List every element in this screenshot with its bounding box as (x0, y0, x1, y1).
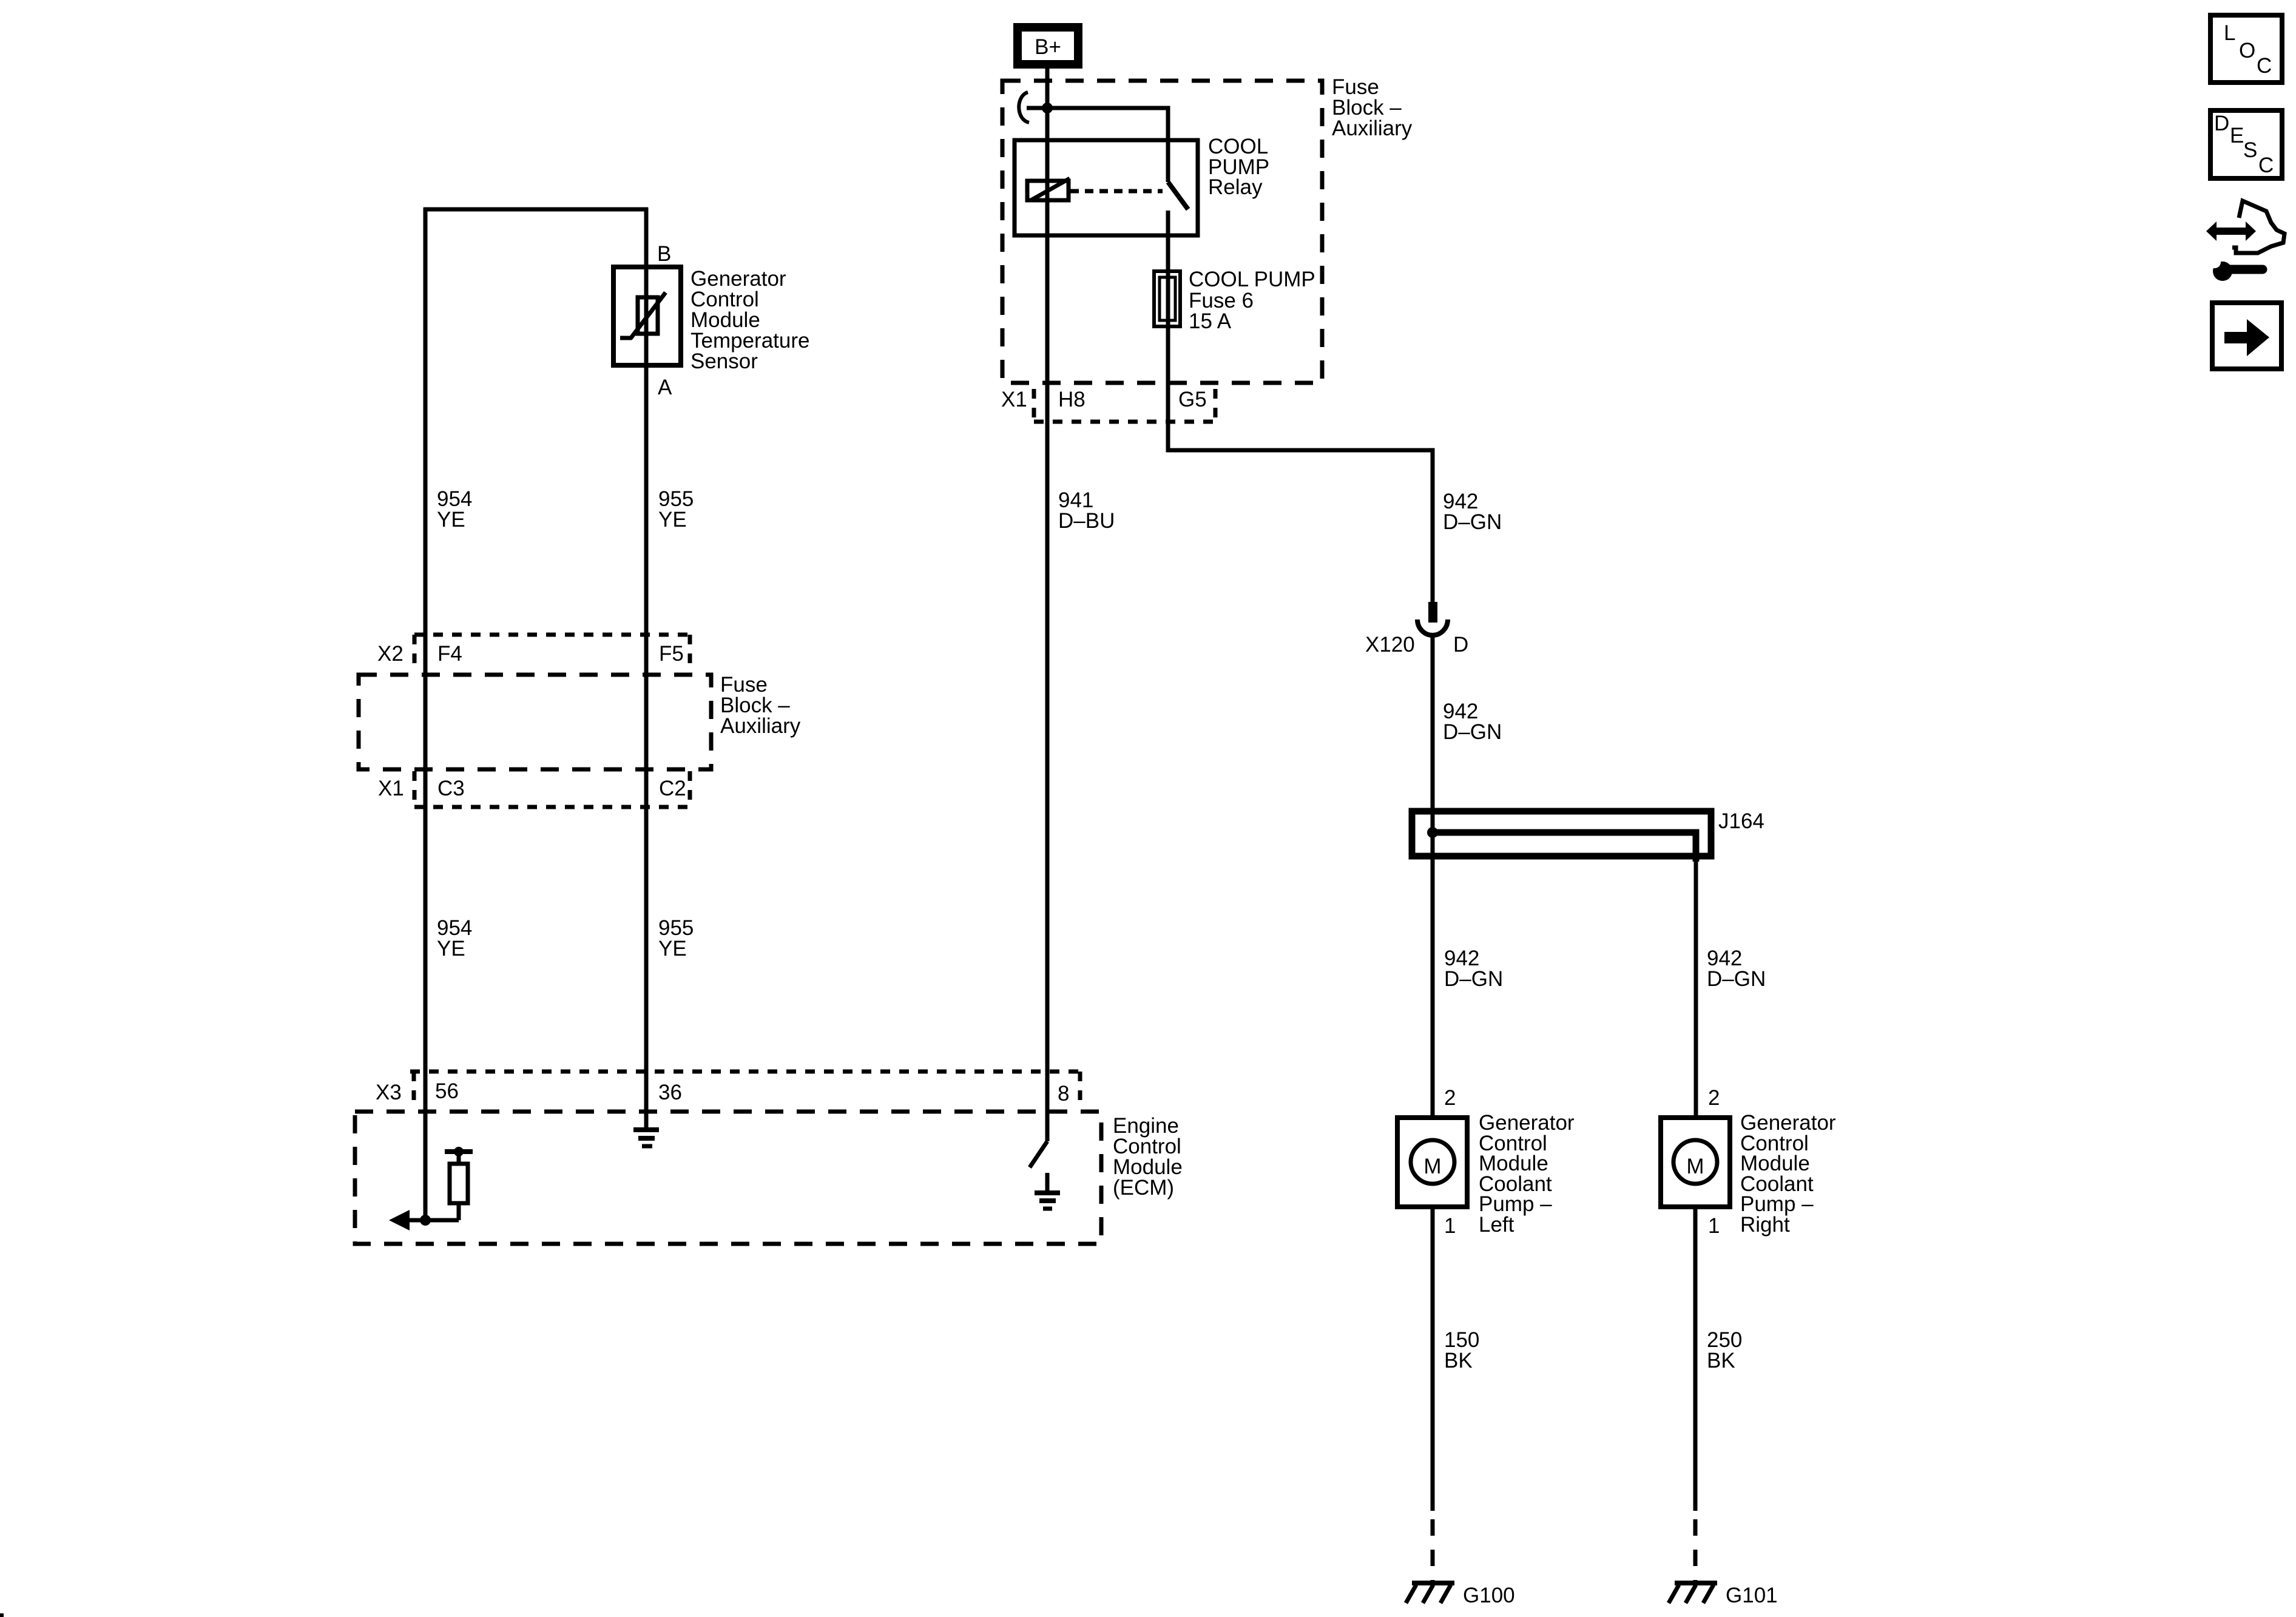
svg-text:YE: YE (437, 508, 465, 532)
svg-text:O: O (2239, 39, 2255, 62)
svg-text:D–GN: D–GN (1444, 967, 1503, 991)
wire label 250 BK (1707, 1328, 1742, 1372)
svg-text:Right: Right (1740, 1213, 1790, 1237)
svg-text:36: 36 (658, 1081, 682, 1104)
fuse block auxiliary (top) label (1332, 75, 1413, 140)
splice pack J164 (1412, 811, 1711, 862)
wire label 942 D-GN (above X120) (1443, 490, 1502, 534)
wire label 942 D-GN (right motor) (1707, 947, 1766, 991)
generator control module coolant pump left label (1479, 1111, 1575, 1237)
svg-text:56: 56 (435, 1079, 459, 1103)
DESC icon box (2210, 110, 2282, 178)
svg-text:YE: YE (658, 937, 687, 960)
connector X120 symbol (male pin into female cup) (1417, 602, 1448, 635)
ground G100 (chassis) (1406, 1583, 1454, 1603)
cool pump fuse label (1189, 268, 1315, 333)
svg-text:2: 2 (1444, 1086, 1456, 1110)
svg-text:C: C (2257, 54, 2272, 78)
wire 150 BK (left motor down) (1431, 1207, 1435, 1511)
svg-text:L: L (2224, 21, 2235, 45)
cool pump relay label (1208, 135, 1269, 199)
svg-text:A: A (658, 376, 672, 399)
wire 955 YE (right vertical, sensor A to ECM pin 36) (644, 208, 649, 1130)
connector X2 band (F4 F5) dotted (414, 635, 690, 671)
svg-text:C2: C2 (659, 777, 686, 800)
relay switch lower contact wire down to fuse (1166, 211, 1170, 273)
svg-text:Left: Left (1479, 1213, 1514, 1237)
svg-text:E: E (2230, 124, 2244, 147)
internal signal line with arrow (inside ECM) (389, 1210, 459, 1230)
svg-text:COOL PUMP: COOL PUMP (1189, 268, 1315, 291)
svg-text:X1: X1 (1001, 388, 1027, 411)
ground symbol at pin 36 (inside ECM) (633, 1130, 659, 1146)
wire label 954 YE (upper) (437, 487, 472, 532)
svg-text:G5: G5 (1178, 388, 1207, 411)
svg-text:BK: BK (1444, 1349, 1473, 1372)
svg-text:1: 1 (1444, 1214, 1456, 1238)
connector X1 band (C3 C2) dotted (414, 771, 690, 807)
switch at pin 8 (inside ECM) (1030, 1141, 1047, 1167)
relay control dashed link (1070, 189, 1163, 194)
fuse block auxiliary (left) label (720, 673, 801, 738)
splice hook symbol on B+ feed (1019, 92, 1029, 123)
svg-text:G101: G101 (1726, 1584, 1778, 1607)
svg-text:Relay: Relay (1208, 175, 1263, 199)
svg-text:BK: BK (1707, 1349, 1735, 1372)
relay coil (1027, 178, 1070, 200)
forward arrow icon box (2212, 303, 2281, 369)
B+ battery feed terminal (1018, 27, 1078, 64)
wire label 150 BK (1444, 1328, 1479, 1372)
svg-text:YE: YE (437, 937, 465, 960)
connector band X1 (H8 G5) dotted (1034, 389, 1217, 422)
coolant pump motor right (M) (1661, 1118, 1730, 1207)
wire label 941 D-BU (1058, 488, 1115, 533)
svg-text:H8: H8 (1058, 388, 1086, 411)
ECM label (1113, 1114, 1183, 1200)
svg-text:F5: F5 (659, 642, 684, 666)
connector X3 band (56 36 8) dotted (410, 1072, 1081, 1108)
svg-text:X120: X120 (1365, 633, 1415, 657)
svg-text:S: S (2243, 138, 2257, 162)
svg-text:D–GN: D–GN (1443, 720, 1502, 744)
wire 942 D-GN (X120 down to J164) (1431, 635, 1435, 1118)
svg-text:8: 8 (1058, 1082, 1069, 1106)
cool pump fuse 6 symbol (1154, 271, 1180, 326)
double-headed arrow icon (2206, 221, 2256, 241)
internal pull-up resistor (inside ECM) (450, 1164, 468, 1220)
wire 250 BK (right motor down) (1693, 1207, 1698, 1511)
thermistor symbol (620, 292, 666, 339)
wire: top horizontal jumper between circuits 954 and 955 (424, 208, 648, 212)
wire 942 D-GN (J164 to right motor) (1694, 856, 1698, 1118)
junction node pin 56 line (420, 1215, 431, 1226)
coolant pump motor left (M) (1397, 1118, 1467, 1207)
svg-text:G100: G100 (1463, 1584, 1515, 1607)
svg-text:X2: X2 (377, 642, 403, 666)
svg-text:B+: B+ (1035, 35, 1061, 59)
ground G101 (chassis) (1669, 1583, 1717, 1603)
generator control module temperature sensor box (613, 267, 681, 365)
wire from fuse through G5 to X120 drop (1168, 273, 1433, 604)
ground symbol at pin 8 (inside ECM) (1035, 1173, 1060, 1209)
svg-text:(ECM): (ECM) (1113, 1176, 1174, 1200)
svg-text:C: C (2258, 154, 2274, 177)
svg-text:2: 2 (1708, 1086, 1720, 1110)
svg-text:X3: X3 (376, 1081, 402, 1104)
wire label 955 YE (lower) (658, 916, 694, 960)
svg-text:M: M (1686, 1155, 1704, 1178)
wire label 954 YE (lower) (437, 916, 472, 960)
svg-text:Sensor: Sensor (690, 349, 758, 373)
svg-text:F4: F4 (437, 642, 462, 666)
wire 954 YE (left vertical, sensor B to ECM pin 56) (424, 208, 428, 1220)
svg-text:D–BU: D–BU (1058, 509, 1115, 533)
wire label 955 YE (upper) (658, 487, 694, 532)
svg-text:D: D (1453, 633, 1468, 657)
svg-text:Auxiliary: Auxiliary (720, 714, 801, 738)
engine control module (ECM) dashed box (355, 1112, 1101, 1244)
fuse block auxiliary (top) dashed box (1002, 81, 1322, 383)
dashed wire drop to G101 (1693, 1519, 1698, 1583)
svg-text:D–GN: D–GN (1443, 510, 1502, 534)
vehicle body outline icon (2232, 201, 2284, 253)
junction node on B+ feed (1042, 103, 1053, 113)
dashed wire drop to G100 (1431, 1519, 1435, 1583)
wire label 942 D-GN (below X120) (1443, 700, 1502, 744)
temperature sensor name label (690, 267, 809, 373)
relay switch blade (1168, 182, 1188, 209)
svg-text:15 A: 15 A (1189, 309, 1232, 333)
wire from junction to relay switch (1027, 108, 1168, 182)
svg-text:M: M (1423, 1155, 1441, 1178)
svg-text:J164: J164 (1718, 809, 1764, 833)
page corner mark (0, 1613, 4, 1617)
cool pump relay box (1015, 140, 1198, 235)
internal 5V reference bar at pin 56 (445, 1147, 473, 1164)
svg-text:C3: C3 (437, 777, 465, 800)
svg-text:B: B (657, 242, 671, 266)
svg-text:Auxiliary: Auxiliary (1332, 116, 1413, 140)
svg-text:X1: X1 (378, 777, 404, 800)
svg-text:1: 1 (1708, 1214, 1720, 1238)
svg-text:D: D (2214, 112, 2229, 135)
svg-text:D–GN: D–GN (1707, 967, 1766, 991)
generator control module coolant pump right label (1740, 1111, 1836, 1237)
fuse block auxiliary (left) dashed box (359, 675, 711, 769)
svg-text:YE: YE (658, 508, 687, 532)
wire label 942 D-GN (left motor) (1444, 947, 1503, 991)
wrench icon (2209, 256, 2263, 281)
LOC icon box (2210, 15, 2282, 83)
wire 941 D-BU (B+ down through relay coil to ECM pin 8) (1045, 69, 1050, 1141)
